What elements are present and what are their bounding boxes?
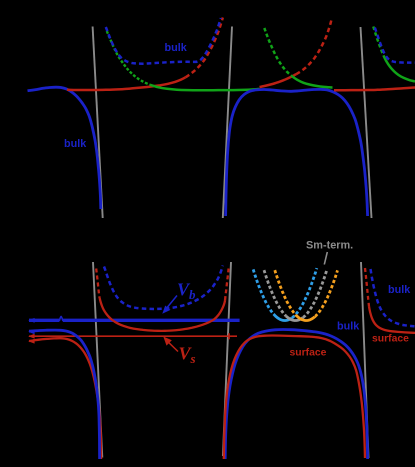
svg-text:bulk: bulk [337,321,360,333]
svg-text:bulk: bulk [64,138,87,150]
svg-text:surface: surface [290,347,327,358]
svg-text:surface: surface [372,333,409,344]
svg-text:bulk: bulk [165,42,188,54]
svg-text:bulk: bulk [388,284,411,296]
svg-text:Sm-term.: Sm-term. [306,240,353,252]
